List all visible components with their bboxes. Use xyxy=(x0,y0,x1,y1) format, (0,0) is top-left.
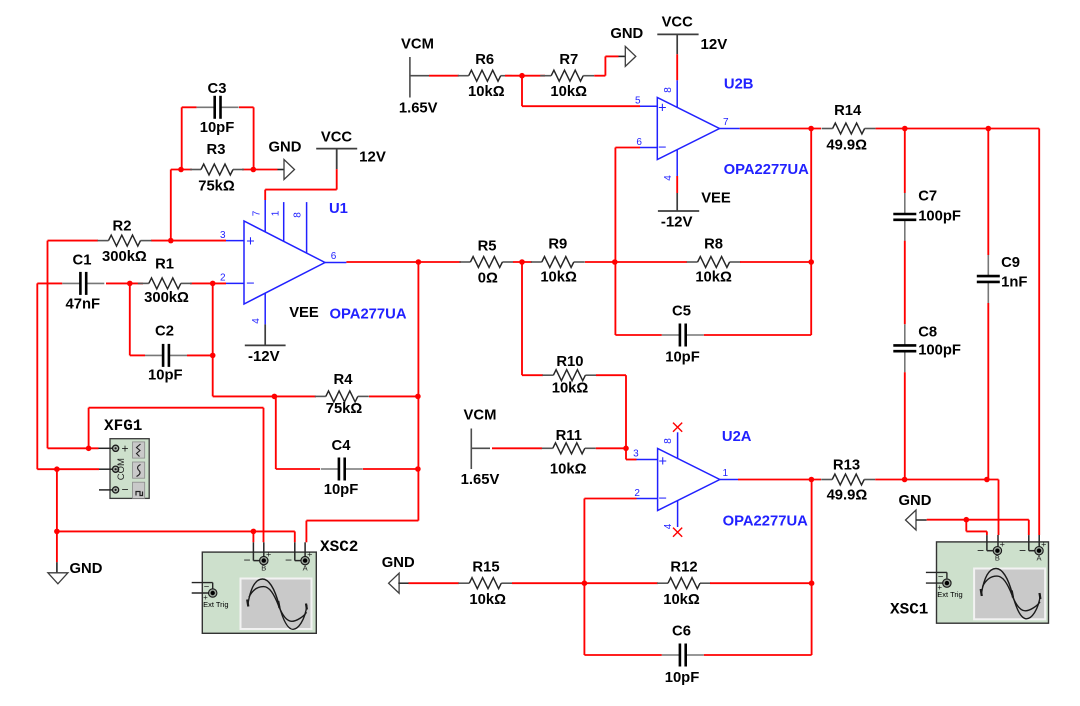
wire xyxy=(676,54,678,80)
wire xyxy=(505,75,545,77)
svg-text:3: 3 xyxy=(220,230,226,241)
XFG1 terminal COM xyxy=(113,466,119,472)
svg-text:10kΩ: 10kΩ xyxy=(540,269,577,285)
resistor R13 xyxy=(821,474,875,485)
junction xyxy=(415,394,421,400)
wire xyxy=(811,480,813,656)
junction xyxy=(127,281,133,287)
wire xyxy=(48,240,99,242)
XSC1 input A stubs xyxy=(1029,535,1039,551)
wire xyxy=(130,354,145,356)
wire xyxy=(987,303,989,479)
svg-text:R7: R7 xyxy=(559,52,578,68)
svg-text:C8: C8 xyxy=(918,324,937,340)
svg-text:1.65V: 1.65V xyxy=(461,472,500,488)
U2A pin8 no-connect X xyxy=(673,423,682,432)
wire xyxy=(521,262,523,375)
wire xyxy=(363,468,418,470)
svg-text:+: + xyxy=(658,100,666,116)
svg-text:1: 1 xyxy=(723,468,729,479)
wire xyxy=(275,396,277,469)
svg-text:0Ω: 0Ω xyxy=(478,270,498,286)
svg-text:R6: R6 xyxy=(475,52,494,68)
wire xyxy=(584,582,658,584)
wire xyxy=(47,241,49,449)
junction xyxy=(272,394,278,400)
svg-text:R8: R8 xyxy=(704,236,723,252)
capacitor C9 xyxy=(977,255,1000,303)
junction xyxy=(178,167,184,173)
capacitor C6 xyxy=(662,644,704,667)
junction xyxy=(984,477,990,483)
svg-text:−: − xyxy=(977,543,984,557)
svg-text:2: 2 xyxy=(634,488,640,499)
ground GND (right, XSC1) xyxy=(906,510,927,530)
svg-text:OPA2277UA: OPA2277UA xyxy=(723,513,809,529)
wire xyxy=(876,128,1040,130)
op-amp U2A xyxy=(637,432,739,527)
capacitor C7 xyxy=(893,193,916,241)
svg-text:4: 4 xyxy=(663,175,674,181)
svg-text:Ext Trig: Ext Trig xyxy=(203,600,228,609)
junction xyxy=(86,446,92,452)
svg-text:+: + xyxy=(658,454,666,470)
XSC2 input B stubs xyxy=(253,542,263,560)
svg-text:R11: R11 xyxy=(556,428,582,444)
svg-text:VCC: VCC xyxy=(321,130,353,146)
XSC1 input A terminal xyxy=(1035,547,1043,555)
wire xyxy=(585,261,687,263)
XFG1 waveform buttons xyxy=(133,442,145,499)
svg-text:8: 8 xyxy=(663,438,674,444)
wire xyxy=(987,129,989,256)
svg-text:49.9Ω: 49.9Ω xyxy=(827,488,868,504)
wire xyxy=(151,240,226,242)
wire xyxy=(294,531,296,542)
wire stub xyxy=(278,169,285,171)
svg-text:10kΩ: 10kΩ xyxy=(469,592,506,608)
svg-text:GND: GND xyxy=(269,140,302,156)
svg-text:-12V: -12V xyxy=(248,348,280,365)
svg-text:−: − xyxy=(121,483,128,497)
svg-text:A: A xyxy=(303,563,308,572)
wire xyxy=(242,169,278,171)
svg-text:10pF: 10pF xyxy=(665,670,700,686)
wire xyxy=(187,354,213,356)
wire xyxy=(626,459,637,461)
wire xyxy=(409,582,460,584)
svg-text:C2: C2 xyxy=(155,324,174,340)
junction xyxy=(582,580,588,586)
wire xyxy=(904,372,906,479)
wire xyxy=(676,176,678,193)
wire xyxy=(346,261,461,263)
wire xyxy=(584,654,661,656)
op-amp U1 xyxy=(226,200,346,324)
capacitor C2 xyxy=(145,344,187,367)
wire xyxy=(253,107,255,169)
svg-text:4: 4 xyxy=(251,318,262,324)
wire xyxy=(106,282,143,284)
wire xyxy=(965,520,967,532)
wire xyxy=(596,374,626,376)
wire xyxy=(182,106,197,108)
XSC2 input B terminal xyxy=(260,556,268,564)
wire xyxy=(89,407,264,409)
resistor R6 xyxy=(458,70,512,81)
svg-text:−: − xyxy=(246,276,254,292)
svg-text:XFG1: XFG1 xyxy=(104,417,142,435)
svg-text:+: + xyxy=(1000,540,1005,550)
svg-text:−: − xyxy=(658,491,666,507)
svg-text:+: + xyxy=(246,234,254,250)
wire xyxy=(904,129,906,194)
resistor R14 xyxy=(822,123,876,134)
svg-text:-12V: -12V xyxy=(661,214,693,231)
svg-text:C4: C4 xyxy=(332,438,352,454)
svg-text:−: − xyxy=(285,553,292,567)
svg-text:Ext Trig: Ext Trig xyxy=(937,590,962,599)
capacitor C5 xyxy=(662,324,704,347)
wire xyxy=(417,262,419,521)
wire xyxy=(274,395,316,397)
svg-text:R4: R4 xyxy=(334,372,354,388)
svg-text:10pF: 10pF xyxy=(148,367,183,383)
junction xyxy=(612,259,618,265)
svg-text:−: − xyxy=(204,581,210,592)
resistor R10 xyxy=(542,370,596,381)
junction xyxy=(210,353,216,359)
source VCM (top) xyxy=(410,57,429,98)
junction xyxy=(54,529,60,535)
svg-text:75kΩ: 75kΩ xyxy=(326,401,363,417)
junction xyxy=(902,126,908,132)
svg-text:+: + xyxy=(1041,540,1046,550)
svg-text:B: B xyxy=(995,553,1000,562)
wire xyxy=(615,147,640,149)
wire xyxy=(704,654,812,656)
junction xyxy=(808,259,814,265)
wire xyxy=(129,283,131,355)
ground GND (mid, R15) xyxy=(389,573,409,593)
svg-text:75kΩ: 75kΩ xyxy=(198,179,235,195)
wire xyxy=(615,334,661,336)
wire xyxy=(239,106,254,108)
svg-text:10kΩ: 10kΩ xyxy=(663,592,700,608)
svg-text:100pF: 100pF xyxy=(918,208,961,224)
svg-text:100pF: 100pF xyxy=(918,343,961,359)
svg-text:U2A: U2A xyxy=(722,429,752,445)
svg-text:C6: C6 xyxy=(672,624,691,640)
svg-text:C5: C5 xyxy=(672,304,691,320)
junction xyxy=(902,477,908,483)
op-amp U2B xyxy=(640,80,740,176)
svg-text:GND: GND xyxy=(70,561,103,577)
XFG1 terminal + xyxy=(113,445,119,451)
wire xyxy=(36,283,38,469)
svg-text:A: A xyxy=(1036,553,1041,562)
wire xyxy=(276,468,320,470)
svg-text:10kΩ: 10kΩ xyxy=(468,84,505,100)
junction xyxy=(210,281,216,287)
svg-text:49.9Ω: 49.9Ω xyxy=(826,138,867,154)
svg-text:1: 1 xyxy=(271,210,282,216)
wire xyxy=(604,56,606,75)
svg-text:R1: R1 xyxy=(155,257,174,273)
ground GND (top middle) xyxy=(625,46,636,66)
wire xyxy=(625,375,627,448)
wire xyxy=(513,261,532,263)
wire xyxy=(738,479,821,481)
wire xyxy=(904,241,906,324)
svg-text:3: 3 xyxy=(633,449,639,460)
wire xyxy=(37,468,99,470)
wire xyxy=(594,75,605,77)
svg-text:U1: U1 xyxy=(329,201,348,217)
svg-text:VEE: VEE xyxy=(289,305,319,321)
wire xyxy=(265,189,337,191)
wire xyxy=(305,521,307,543)
wire xyxy=(522,374,543,376)
svg-text:−: − xyxy=(243,553,250,567)
svg-text:7: 7 xyxy=(723,117,729,128)
power VCC (U1) xyxy=(316,149,357,170)
wire xyxy=(429,75,459,77)
wire xyxy=(181,107,183,169)
wire stub xyxy=(619,55,626,57)
svg-text:300kΩ: 300kΩ xyxy=(102,249,147,265)
XSC1 ext trig terminal xyxy=(926,572,947,583)
svg-text:COM: COM xyxy=(116,458,127,480)
svg-text:10pF: 10pF xyxy=(324,482,359,498)
resistor R7 xyxy=(540,70,594,81)
svg-text:8: 8 xyxy=(293,212,304,218)
junction xyxy=(809,477,815,483)
svg-text:+: + xyxy=(307,550,312,560)
wire xyxy=(704,334,811,336)
wire xyxy=(740,261,811,263)
wire xyxy=(740,128,821,130)
wire xyxy=(596,447,626,449)
wire xyxy=(492,447,542,449)
wire xyxy=(986,531,988,535)
svg-text:VCM: VCM xyxy=(464,407,497,423)
svg-text:6: 6 xyxy=(331,251,337,262)
wire xyxy=(998,480,1000,536)
svg-text:XSC1: XSC1 xyxy=(890,601,928,619)
XSC2 input A terminal xyxy=(301,556,309,564)
wire xyxy=(810,129,812,336)
wire xyxy=(1038,129,1040,536)
svg-text:10kΩ: 10kΩ xyxy=(550,84,587,100)
junction xyxy=(519,73,525,79)
oscilloscope XSC2 xyxy=(202,552,316,633)
wire xyxy=(57,530,295,532)
wire xyxy=(614,148,616,336)
svg-text:5: 5 xyxy=(635,96,641,107)
junction xyxy=(986,126,992,132)
svg-text:12V: 12V xyxy=(359,149,386,166)
svg-text:C9: C9 xyxy=(1001,255,1020,271)
wire xyxy=(48,447,99,449)
wire xyxy=(369,395,418,397)
svg-text:−: − xyxy=(938,571,944,582)
wire xyxy=(56,469,58,562)
svg-text:R14: R14 xyxy=(834,103,862,119)
resistor R5 xyxy=(459,257,513,268)
U2A pin4 no-connect X xyxy=(673,528,682,537)
XSC2 input A stubs xyxy=(295,542,305,560)
svg-text:10pF: 10pF xyxy=(665,350,700,366)
svg-text:47nF: 47nF xyxy=(66,296,101,312)
resistor R12 xyxy=(657,578,711,589)
svg-text:OPA277UA: OPA277UA xyxy=(329,307,406,323)
svg-text:−: − xyxy=(1019,543,1026,557)
wire xyxy=(88,408,90,449)
svg-text:C3: C3 xyxy=(208,81,227,97)
svg-text:10kΩ: 10kΩ xyxy=(695,269,732,285)
oscilloscope XSC1 xyxy=(937,542,1049,623)
junction xyxy=(623,446,629,452)
svg-text:1.65V: 1.65V xyxy=(399,101,438,117)
junction xyxy=(168,238,174,244)
wire xyxy=(583,499,585,656)
source VCM (bottom) xyxy=(471,429,490,470)
svg-text:300kΩ: 300kΩ xyxy=(144,290,189,306)
svg-text:C7: C7 xyxy=(918,189,937,205)
wire xyxy=(512,582,584,584)
XSC2 ext trig terminal xyxy=(192,583,213,593)
junction xyxy=(251,167,257,173)
function generator XFG1 xyxy=(99,439,150,499)
wire xyxy=(710,582,812,584)
svg-text:1nF: 1nF xyxy=(1001,275,1027,291)
capacitor C3 xyxy=(197,96,239,119)
svg-text:U2B: U2B xyxy=(724,77,754,93)
svg-text:10kΩ: 10kΩ xyxy=(552,381,589,397)
wire xyxy=(264,190,266,200)
junction xyxy=(519,259,525,265)
junction xyxy=(808,126,814,132)
junction xyxy=(251,529,257,535)
svg-text:OPA2277UA: OPA2277UA xyxy=(724,162,810,178)
svg-text:XSC2: XSC2 xyxy=(320,538,358,556)
power VEE -12V (U2B) xyxy=(658,193,699,211)
XFG1 terminal - xyxy=(113,487,119,493)
svg-text:R10: R10 xyxy=(556,354,583,370)
svg-text:+: + xyxy=(121,442,128,456)
XSC1 input B terminal xyxy=(993,547,1001,555)
wire xyxy=(521,76,523,107)
wire xyxy=(875,479,998,481)
ground GND (top left) xyxy=(284,160,295,180)
svg-text:R15: R15 xyxy=(472,559,499,575)
svg-text:7: 7 xyxy=(252,210,263,216)
resistor R2 xyxy=(98,235,152,246)
XSC1 input B stubs xyxy=(987,535,998,551)
resistor R4 xyxy=(315,391,369,402)
svg-text:VCM: VCM xyxy=(401,37,434,53)
wire xyxy=(252,531,254,542)
svg-text:6: 6 xyxy=(636,137,642,148)
junction xyxy=(809,580,815,586)
svg-text:R3: R3 xyxy=(207,142,226,158)
junction xyxy=(416,259,422,265)
svg-text:8: 8 xyxy=(663,87,674,93)
capacitor C4 xyxy=(321,458,363,481)
wire xyxy=(336,169,338,190)
wire xyxy=(1028,520,1030,535)
capacitor C1 xyxy=(62,272,104,295)
svg-text:R5: R5 xyxy=(478,239,497,255)
svg-text:R2: R2 xyxy=(113,219,132,235)
svg-text:R13: R13 xyxy=(833,458,860,474)
svg-text:GND: GND xyxy=(899,493,932,509)
power VEE -12V (U1) xyxy=(245,324,286,345)
wire xyxy=(170,170,172,241)
svg-text:10pF: 10pF xyxy=(200,120,235,136)
svg-text:C1: C1 xyxy=(73,253,92,269)
svg-text:2: 2 xyxy=(220,273,226,284)
svg-text:GND: GND xyxy=(382,555,415,571)
svg-text:R9: R9 xyxy=(548,236,567,252)
wire xyxy=(190,282,226,284)
wire xyxy=(605,55,618,57)
capacitor C8 xyxy=(893,324,916,372)
wire xyxy=(37,282,62,284)
junction xyxy=(964,517,970,523)
wire xyxy=(966,530,987,532)
resistor R8 xyxy=(687,257,741,268)
junction xyxy=(415,466,421,472)
ground GND (bottom left) xyxy=(48,562,68,584)
svg-text:4: 4 xyxy=(663,523,674,529)
wire xyxy=(171,169,192,171)
svg-text:10kΩ: 10kΩ xyxy=(550,462,587,478)
wire xyxy=(212,283,214,396)
svg-text:12V: 12V xyxy=(701,36,728,53)
wire xyxy=(927,519,1029,521)
wire xyxy=(584,498,636,500)
svg-text:VEE: VEE xyxy=(701,191,731,207)
wire xyxy=(213,395,276,397)
resistor R15 xyxy=(458,578,512,589)
resistor R3 xyxy=(190,164,244,175)
wire xyxy=(625,448,627,459)
power VCC (U2B) xyxy=(657,34,698,54)
svg-text:GND: GND xyxy=(610,26,643,42)
resistor R9 xyxy=(531,257,585,268)
svg-text:VCC: VCC xyxy=(662,15,694,31)
svg-text:B: B xyxy=(261,563,266,572)
wire xyxy=(263,408,265,543)
svg-text:+: + xyxy=(266,550,271,560)
wire xyxy=(522,105,640,107)
svg-text:−: − xyxy=(658,140,666,156)
resistor R1 xyxy=(138,278,192,289)
wire xyxy=(306,520,418,522)
resistor R11 xyxy=(542,443,596,454)
junction xyxy=(54,466,60,472)
svg-text:R12: R12 xyxy=(670,559,697,575)
